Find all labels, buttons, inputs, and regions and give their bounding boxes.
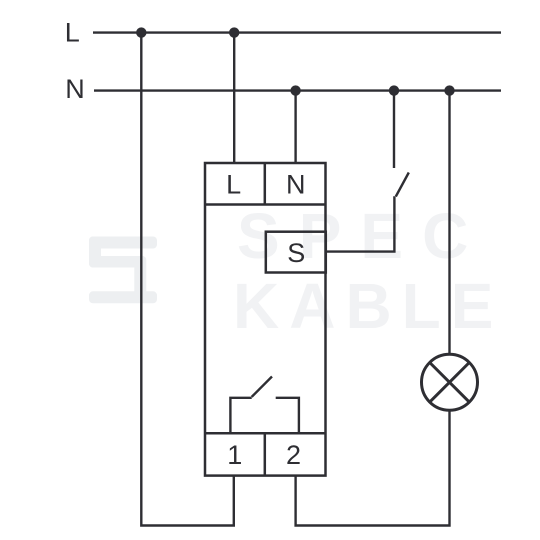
svg-text:1: 1 (227, 440, 242, 470)
terminal S box (266, 232, 326, 273)
wire N to terminal N (294, 91, 296, 163)
wire switch to terminal S (326, 196, 395, 251)
terminal divider L/N (264, 163, 267, 205)
svg-text:N: N (286, 170, 306, 200)
svg-text:L: L (226, 170, 241, 200)
svg-text:KABLE: KABLE (233, 270, 503, 342)
terminal row bottom divider (205, 432, 326, 435)
junction dot N-1 (290, 85, 300, 95)
watermark logo S (89, 237, 157, 304)
junction dot L-2 (229, 27, 239, 37)
terminal row top divider (205, 203, 326, 206)
wire L line (93, 31, 501, 33)
wire L drop to terminal 1 (141, 33, 234, 526)
relay module U1 outline (205, 163, 326, 476)
terminal divider 1/2 (264, 433, 267, 475)
wire N to lamp (448, 91, 450, 355)
switch S1 blade (396, 173, 409, 197)
relay contact K1 throw (276, 398, 299, 433)
wire lamp to terminal 2 (296, 411, 450, 526)
lamp E1 circle (422, 354, 478, 410)
relay contact K1 pole (230, 398, 251, 433)
junction dot N-3 (444, 85, 454, 95)
svg-text:2: 2 (286, 440, 301, 470)
svg-text:L: L (65, 17, 80, 47)
relay contact K1 blade (252, 377, 272, 397)
svg-text:S: S (287, 238, 305, 268)
wire N line (94, 89, 501, 91)
junction dot L-1 (136, 27, 146, 37)
junction dot N-2 (389, 85, 399, 95)
wire L to terminal L (233, 33, 235, 163)
svg-text:N: N (65, 74, 85, 104)
lamp E1 cross (430, 363, 470, 403)
wire N to switch (393, 91, 395, 168)
